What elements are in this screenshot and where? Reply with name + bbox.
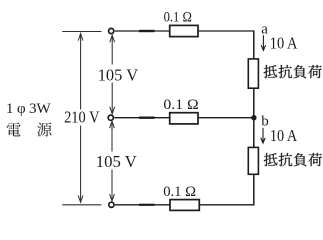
wire (right vertical, upper load to node b): [253, 88, 255, 118]
wire (middle line, thick segment): [139, 116, 155, 118]
svg-text:0.1 Ω: 0.1 Ω: [164, 10, 192, 26]
wire (bottom line, thick segment): [139, 204, 155, 206]
svg-text:0.1 Ω: 0.1 Ω: [163, 97, 198, 113]
svg-text:1 φ 3W: 1 φ 3W: [6, 100, 51, 117]
svg-text:10 A: 10 A: [270, 126, 297, 145]
terminal circle (top): [109, 28, 114, 33]
load label teikoufuka (upper, kanji): [264, 65, 322, 78]
wire (bottom-left reference stub): [62, 204, 101, 206]
svg-text:a: a: [261, 21, 268, 37]
current arrow 10 A (lower): [261, 128, 265, 143]
terminal circle (middle): [108, 115, 113, 120]
source label dengen (kanji): [7, 123, 52, 137]
resistor 0.1 ohm (bottom line): [170, 200, 199, 211]
resistor 0.1 ohm (middle line): [170, 113, 198, 124]
resistor 0.1 ohm (top line): [170, 25, 198, 36]
svg-text:105 V: 105 V: [96, 152, 138, 171]
wire (middle line, resistor to node b): [198, 117, 254, 119]
node b junction dot: [251, 115, 256, 120]
wire (right vertical, node b to lower load): [253, 118, 255, 148]
load label teikoufuka (lower, kanji): [264, 153, 322, 166]
load resistor (upper): [248, 59, 258, 88]
wire (right vertical, node a to upper load): [253, 30, 255, 59]
svg-text:10 A: 10 A: [270, 34, 298, 53]
svg-text:210 V: 210 V: [64, 108, 99, 127]
wire (middle line, circle to resistor): [114, 117, 169, 119]
terminal circle (bottom): [109, 202, 114, 207]
svg-text:b: b: [261, 113, 269, 129]
dimension arrow 105 V (middle to bottom wire): [110, 121, 115, 201]
svg-text:0.1 Ω: 0.1 Ω: [163, 184, 196, 200]
wire (right vertical, lower load to bottom corner): [253, 174, 255, 205]
wire (top line, resistor to corner): [198, 30, 255, 32]
wire (top line, thick segment): [139, 30, 155, 32]
wire (top-left reference stub): [62, 31, 101, 33]
load resistor (lower): [248, 147, 258, 174]
dimension arrow 105 V (top to middle wire): [110, 35, 115, 114]
wire (bottom line, circle to resistor): [115, 204, 170, 206]
wire (top line, circle to resistor): [115, 30, 170, 32]
current arrow 10 A (upper): [261, 35, 265, 50]
dimension arrow 210 V (spans top to bottom wire): [78, 34, 83, 203]
wire (bottom line, resistor to corner): [199, 204, 254, 206]
svg-text:105 V: 105 V: [98, 65, 139, 84]
